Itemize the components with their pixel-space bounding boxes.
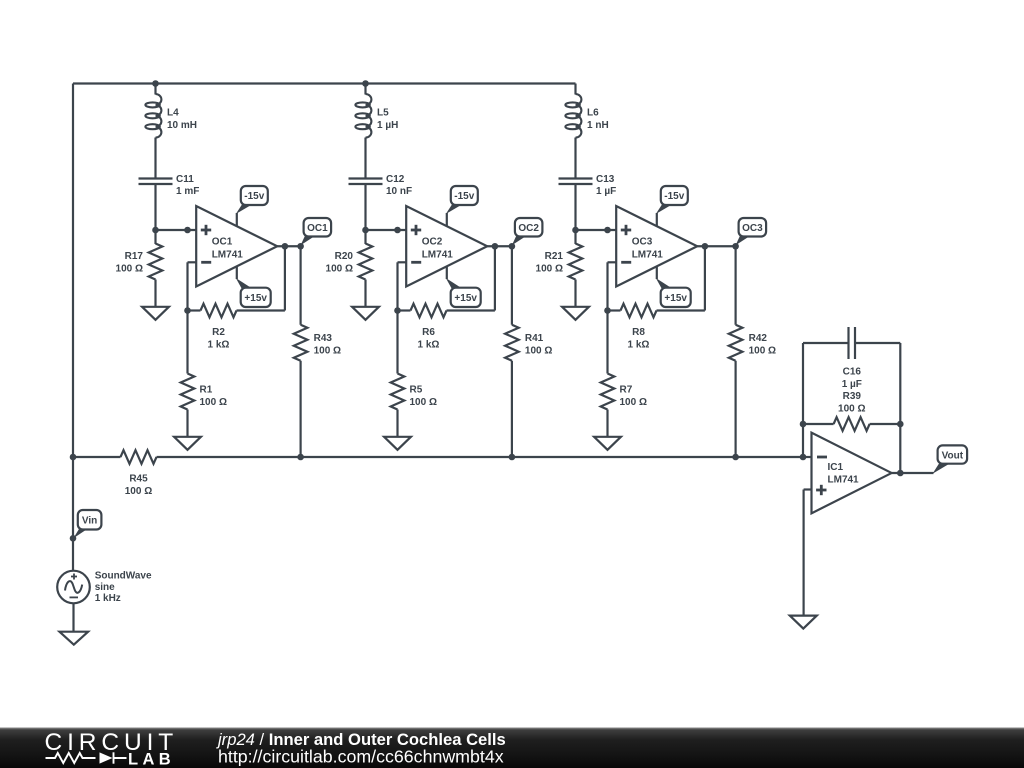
svg-text:R43: R43 [314,333,333,344]
svg-text:C11: C11 [176,174,194,185]
svg-text:L5: L5 [377,108,389,119]
svg-text:1 µF: 1 µF [596,186,616,197]
svg-text:R45: R45 [129,474,148,485]
svg-text:-15v: -15v [244,191,264,202]
svg-text:L6: L6 [587,108,599,119]
svg-text:Vin: Vin [82,515,97,526]
svg-text:100 Ω: 100 Ω [326,263,353,274]
svg-text:100 Ω: 100 Ω [314,346,341,357]
svg-text:100 Ω: 100 Ω [116,263,143,274]
svg-text:LM741: LM741 [422,249,454,260]
svg-text:OC3: OC3 [632,237,653,248]
svg-text:http://circuitlab.com/cc66chnw: http://circuitlab.com/cc66chnwmbt4x [218,747,504,767]
svg-text:OC1: OC1 [307,223,328,234]
svg-text:10 nF: 10 nF [386,186,412,197]
svg-text:LM741: LM741 [212,249,244,260]
svg-text:R5: R5 [410,385,423,396]
svg-text:LM741: LM741 [632,249,664,260]
svg-text:R42: R42 [749,333,768,344]
svg-text:Vout: Vout [942,450,964,461]
svg-text:+15v: +15v [664,293,687,304]
svg-text:R20: R20 [335,251,354,262]
svg-text:100 Ω: 100 Ω [838,404,865,415]
svg-text:100 Ω: 100 Ω [749,346,776,357]
svg-text:1 kΩ: 1 kΩ [208,339,230,350]
svg-text:R2: R2 [212,327,225,338]
svg-text:R41: R41 [525,333,544,344]
svg-text:100 Ω: 100 Ω [536,263,563,274]
svg-text:10 mH: 10 mH [167,120,197,131]
svg-text:OC2: OC2 [422,237,443,248]
svg-text:LM741: LM741 [828,475,860,486]
svg-text:OC3: OC3 [742,223,763,234]
svg-text:+15v: +15v [244,293,267,304]
svg-text:100 Ω: 100 Ω [125,486,152,497]
svg-text:1 mF: 1 mF [176,186,199,197]
svg-text:C16: C16 [843,367,862,378]
svg-text:100 Ω: 100 Ω [525,346,552,357]
svg-text:100 Ω: 100 Ω [200,397,227,408]
svg-text:100 Ω: 100 Ω [620,397,647,408]
svg-text:C12: C12 [386,174,405,185]
svg-text:R21: R21 [545,251,564,262]
svg-text:-15v: -15v [664,191,684,202]
svg-text:C13: C13 [596,174,615,185]
svg-text:+15v: +15v [454,293,477,304]
svg-text:R7: R7 [620,385,633,396]
svg-text:1 kHz: 1 kHz [95,593,121,604]
svg-text:R17: R17 [125,251,144,262]
svg-text:R8: R8 [632,327,645,338]
svg-text:IC1: IC1 [828,462,844,473]
svg-text:LAB: LAB [128,751,175,768]
svg-text:1 µF: 1 µF [842,379,862,390]
svg-text:1 nH: 1 nH [587,120,609,131]
svg-text:sine: sine [95,582,115,593]
svg-text:SoundWave: SoundWave [95,570,152,581]
svg-text:R1: R1 [200,385,213,396]
svg-text:R39: R39 [843,391,862,402]
svg-text:L4: L4 [167,108,179,119]
svg-text:-15v: -15v [454,191,474,202]
svg-text:1 kΩ: 1 kΩ [628,339,650,350]
svg-text:100 Ω: 100 Ω [410,397,437,408]
svg-text:1 kΩ: 1 kΩ [418,339,440,350]
svg-text:OC1: OC1 [212,237,233,248]
svg-text:1 µH: 1 µH [377,120,398,131]
svg-text:R6: R6 [422,327,435,338]
svg-text:OC2: OC2 [518,223,539,234]
